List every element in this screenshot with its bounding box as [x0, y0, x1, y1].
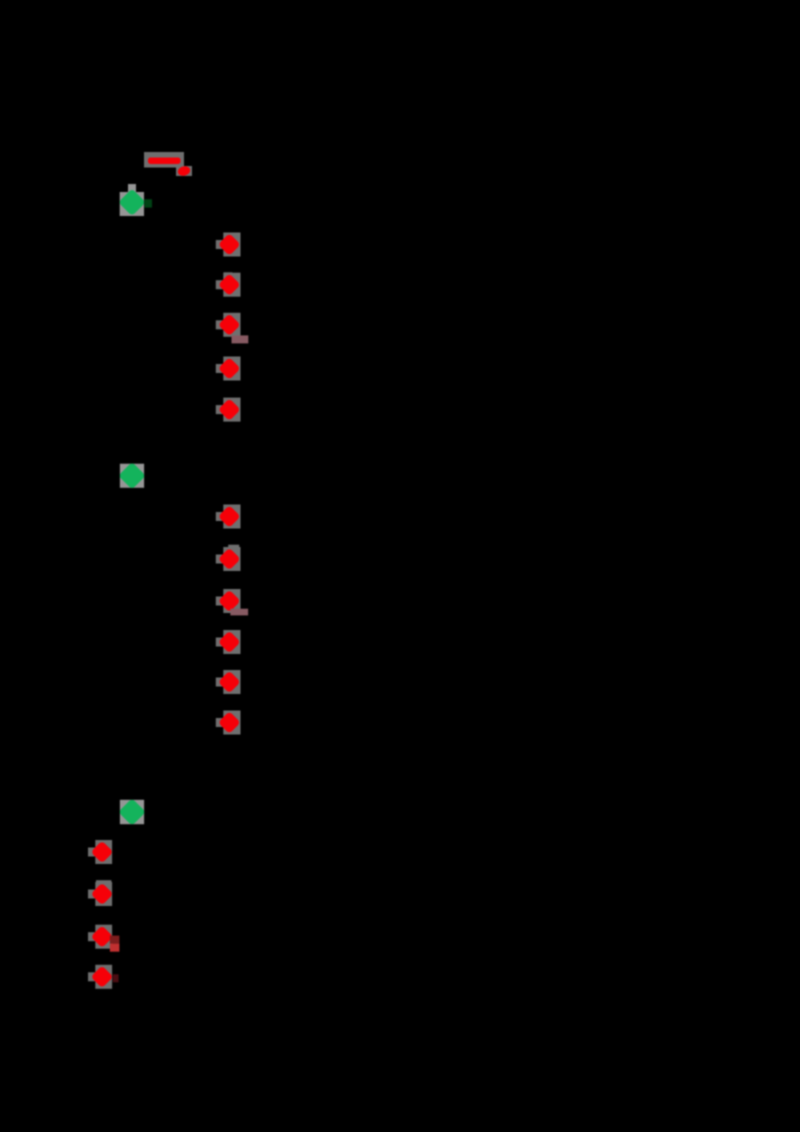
red diamond B5: [218, 671, 241, 694]
green diamond G3 cell: [120, 800, 144, 824]
red diamond C2 cell: [95, 882, 112, 906]
red diamond A2: [218, 273, 241, 296]
red diamond C2 top notch cell: [96, 880, 111, 886]
red diamond C1: [91, 841, 114, 864]
red diamond B6 small cell: [216, 718, 224, 727]
red diamond B2 small cell: [216, 555, 224, 564]
red diamond A1 small cell: [216, 240, 224, 249]
red diamond A2 small cell: [216, 280, 224, 289]
red diamond B5 small cell: [216, 678, 224, 687]
red minus bar: [148, 158, 181, 165]
red diamond B6: [218, 711, 241, 734]
red diamond A2 top notch cell: [224, 272, 233, 280]
red diamond C2: [91, 883, 114, 906]
red diamond B2 cell: [223, 547, 240, 571]
mauve tail right of A3: [232, 335, 249, 343]
green diamond G1: [118, 189, 146, 217]
mauve tail right of B3: [230, 609, 248, 616]
red diamond A1 cell: [223, 233, 240, 257]
red diamond B4 small cell: [216, 638, 224, 647]
red diamond B2 top notch cell: [228, 545, 239, 551]
green diamond G1 cell: [120, 192, 144, 216]
dark red square upper part right of C3: [110, 936, 120, 944]
red diamond B6 cell: [223, 711, 240, 735]
red diamond B4: [218, 631, 241, 654]
red diamond C4 small cell: [88, 972, 95, 981]
red diamond A5 small cell: [216, 405, 224, 414]
small glyph cell under bar: [176, 166, 192, 176]
green diamond G2: [118, 462, 146, 490]
minus-bar glyph cell: [144, 152, 184, 168]
red diamond C4 cell: [95, 965, 112, 989]
green diamond G3: [118, 798, 146, 826]
red diamond B3 small cell: [216, 597, 224, 606]
red diamond A1: [218, 233, 241, 256]
red diamond B1 cell: [223, 505, 240, 529]
red diamond A5: [218, 398, 241, 421]
red blob: [177, 165, 191, 177]
faint dark red blob right of C4: [113, 974, 119, 982]
red diamond C4: [91, 965, 114, 988]
red diamond C3 small cell: [88, 932, 95, 941]
red diamond B3: [218, 590, 241, 613]
red diamond A5 cell: [223, 398, 240, 422]
red diamond A3 small cell: [216, 320, 224, 329]
red diamond C1 small cell: [88, 848, 95, 857]
red diamond C3: [91, 925, 114, 948]
red diamond C1 cell: [95, 840, 112, 864]
red diamond C3 cell: [95, 925, 112, 949]
red diamond B1: [218, 505, 241, 528]
red diamond A3 cell: [223, 313, 240, 337]
red diamond B3 cell: [223, 589, 240, 613]
red diamond A3: [218, 313, 241, 336]
red diamond B2: [218, 548, 241, 571]
red diamond B5 cell: [223, 670, 240, 694]
red diamond C2 small cell: [88, 890, 95, 899]
dark green square right of G1: [145, 199, 153, 207]
red diamond A4 small cell: [216, 364, 224, 373]
red diamond A4 cell: [223, 357, 240, 381]
red diamond B4 cell: [223, 630, 240, 654]
dark red square lower part right of C3: [110, 944, 120, 952]
green diamond G1 top notch cell: [128, 184, 136, 192]
red diamond A2 cell: [223, 273, 240, 297]
red diamond A4: [218, 357, 241, 380]
red diamond B1 small cell: [216, 512, 224, 521]
green diamond G2 cell: [120, 464, 144, 488]
